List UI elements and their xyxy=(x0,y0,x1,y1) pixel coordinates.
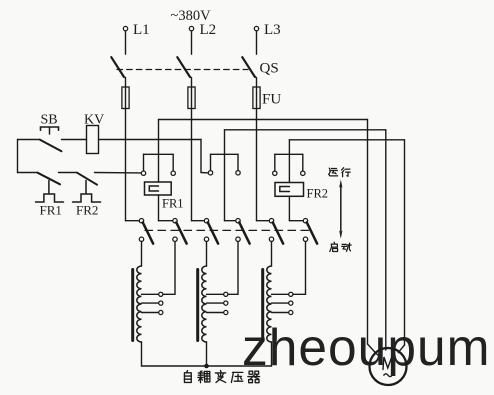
svg-text:KV: KV xyxy=(84,113,104,128)
svg-text:FR2: FR2 xyxy=(307,187,329,201)
svg-text:L1: L1 xyxy=(133,22,150,38)
svg-text:FU: FU xyxy=(262,92,281,108)
svg-text:QS: QS xyxy=(260,61,279,77)
svg-text:SB: SB xyxy=(41,113,58,128)
svg-text:~380V: ~380V xyxy=(171,8,212,24)
svg-text:L3: L3 xyxy=(264,22,281,38)
svg-text:FR1: FR1 xyxy=(162,197,184,211)
svg-text:FR1: FR1 xyxy=(40,203,62,218)
svg-text:FR2: FR2 xyxy=(76,203,98,218)
svg-text:L2: L2 xyxy=(200,22,217,38)
